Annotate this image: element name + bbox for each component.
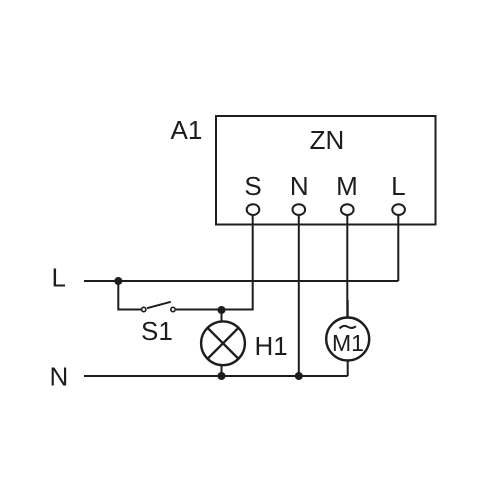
svg-text:L: L xyxy=(52,263,66,293)
svg-text:M: M xyxy=(336,171,358,201)
svg-text:A1: A1 xyxy=(171,115,203,145)
svg-text:ZN: ZN xyxy=(310,125,345,155)
svg-text:N: N xyxy=(290,171,309,201)
svg-text:S: S xyxy=(244,171,261,201)
svg-text:L: L xyxy=(391,171,405,201)
svg-text:N: N xyxy=(50,362,69,392)
svg-text:S1: S1 xyxy=(141,316,173,346)
svg-text:H1: H1 xyxy=(255,331,288,361)
svg-text:M1: M1 xyxy=(332,330,364,356)
